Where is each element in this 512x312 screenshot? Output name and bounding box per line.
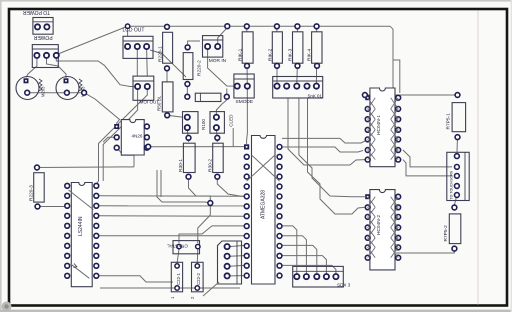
svg-text:POWER: POWER xyxy=(33,34,52,40)
svg-text:CLED: CLED xyxy=(229,114,234,127)
svg-text:CRYSTAL: CRYSTAL xyxy=(167,244,188,249)
wire HC04N-1 pin1 bus to R7P5-1 xyxy=(365,94,458,96)
photo edge top xyxy=(0,0,512,2)
faint board fold line xyxy=(477,11,479,305)
svg-text:RIK-2: RIK-2 xyxy=(267,48,273,61)
wire ATMEGA to KEYS pad5 xyxy=(282,265,336,273)
node emitter bus pad xyxy=(82,90,87,95)
svg-text:R220-1: R220-1 xyxy=(157,46,163,62)
svg-text:C22-1: C22-1 xyxy=(176,272,181,285)
wire ISP pad4 xyxy=(230,275,245,277)
svg-text:LCD OUT: LCD OUT xyxy=(123,28,145,34)
photo edge bottom xyxy=(0,310,512,312)
wire crystal left to ATMEGA xyxy=(179,226,244,243)
connector J2 POWER 3-pin xyxy=(32,45,59,68)
wire crystal to mid pad xyxy=(198,205,211,243)
resistor R7P5-1 xyxy=(452,93,466,140)
wire staircase s3 to HC04N-2 pin2 xyxy=(308,98,366,214)
wire R220-2 top stub xyxy=(188,41,200,44)
connector ISP 4-pin xyxy=(218,241,242,284)
svg-text:HC04N-1: HC04N-1 xyxy=(376,115,382,135)
wire RIK-3 bottom xyxy=(296,64,299,85)
transistor Q2 xyxy=(56,77,79,100)
wire diagonal across LS244 lower xyxy=(71,264,90,279)
wire braid HC04N-2 right xyxy=(391,197,399,208)
svg-text:LS244IN: LS244IN xyxy=(78,216,84,236)
svg-text:SMODE: SMODE xyxy=(236,99,254,105)
wire RIK-1 top stub xyxy=(246,26,248,32)
wire staircase s2 to HC04N-2 pin1 xyxy=(299,98,365,197)
wire power pad1 to Q1 xyxy=(26,57,37,78)
resistor network RN2 right box xyxy=(210,112,224,134)
wire 4N26 pin2 left xyxy=(103,137,117,142)
wire branch of top bus to HC04N-1 pin14 xyxy=(393,60,400,93)
connector touchscreen 5-pin xyxy=(447,152,469,200)
svg-text:SDX 3: SDX 3 xyxy=(337,283,351,288)
connector J1 TO POWER 2-pin xyxy=(33,18,53,35)
svg-text:R30-1: R30-1 xyxy=(178,159,184,172)
wire ATMEGA to KEYS pad4 xyxy=(282,256,326,274)
svg-text:R220-3: R220-3 xyxy=(29,185,35,201)
wire mid horizontal to ATMEGA pin1 xyxy=(148,146,244,148)
svg-text:R7P5-2: R7P5-2 xyxy=(443,225,449,242)
svg-text:R30-2: R30-2 xyxy=(207,159,213,172)
wire diagonal power connector to top bus xyxy=(58,27,127,54)
svg-text:RIK-1: RIK-1 xyxy=(238,48,244,61)
node bus pad near MOR IN xyxy=(225,24,230,29)
svg-text:RIK-3: RIK-3 xyxy=(288,48,294,61)
wire ISP corner diagonal xyxy=(203,282,219,296)
wire MOR IN pad2 to top bus xyxy=(218,26,228,44)
wire MOR OUT pad2 down-left diagonal xyxy=(96,88,147,184)
wire RIK-3 top stub xyxy=(296,26,298,32)
wire CLED down xyxy=(232,128,234,147)
wire diagonal across R220-1 xyxy=(150,50,186,77)
svg-text:R100: R100 xyxy=(201,119,206,130)
corner screw bottom-left xyxy=(2,302,12,312)
svg-text:M263: M263 xyxy=(41,86,46,97)
resistor RIK-4 xyxy=(312,24,322,68)
photo edge right xyxy=(511,0,512,312)
node bus left pad xyxy=(363,93,368,98)
wire HC04N-1 to touchscreen b xyxy=(403,160,452,176)
resistor R30-1 xyxy=(183,135,195,179)
svg-text:MOR IN: MOR IN xyxy=(209,58,227,64)
wire emitter bus Q1-Q2 xyxy=(27,92,84,94)
resistor R220-1 xyxy=(163,24,173,70)
wire LS244 row A xyxy=(99,195,244,197)
wire R100 right box top stub xyxy=(216,100,226,114)
wire diagonal D2 emitter bus to 4N26 xyxy=(84,93,119,125)
wire mid vertical pair b xyxy=(160,170,162,197)
resistor R220-2 xyxy=(183,45,193,87)
wire R30-2 bottom xyxy=(217,179,244,196)
connector LCD OUT xyxy=(123,36,153,58)
wire braid HC04N-1 right xyxy=(391,98,399,109)
wire LS244 row B xyxy=(99,205,244,207)
svg-text:4N26: 4N26 xyxy=(132,134,143,139)
wire LS244 row C xyxy=(99,215,244,217)
wire SMODE pad to ATMEGA pin1 xyxy=(246,88,249,144)
svg-text:R220-2: R220-2 xyxy=(197,60,203,76)
node bus pad at LCD OUT xyxy=(125,24,129,28)
resistor R7P5-2 xyxy=(449,205,461,251)
svg-text:HC04N-2: HC04N-2 xyxy=(376,215,382,235)
resistor RIK-1 xyxy=(242,24,253,68)
wire diagonal across ATMEGA a xyxy=(247,155,275,181)
coil mark Q1 xyxy=(39,79,42,91)
wire ATMEGA to KEYS pad3 xyxy=(282,245,317,273)
wire R220-3 top to mid column xyxy=(37,166,134,169)
crystal Y1 xyxy=(173,241,200,254)
wire R100 right box to R30-2 xyxy=(215,129,218,142)
wire RIK-1 bottom xyxy=(246,64,248,85)
ic U1 ATMEGA328 xyxy=(244,136,282,285)
wire fuse left stub xyxy=(226,89,228,96)
wire crystal pad2 to C22-2 xyxy=(196,249,199,263)
wire ISP pad2 xyxy=(230,255,245,258)
wire R30-1 bottom xyxy=(189,179,211,201)
wire ground bottom run xyxy=(100,287,240,289)
wire mid vertical pair a xyxy=(157,170,210,203)
resistor R50 xyxy=(162,82,173,118)
wire ATMEGA to KEYS pad1 xyxy=(282,226,297,274)
wire ATMEGA to HC04N-1 row a xyxy=(282,138,366,143)
diode D1 fuse body xyxy=(185,93,229,101)
wire MOR OUT pad1 down-left diagonal xyxy=(103,88,137,181)
wire R220-3 bottom to LS244 xyxy=(38,205,68,208)
wire MOR IN pad1 to SMODE xyxy=(208,48,238,86)
wire RIK-2 top stub xyxy=(276,26,278,32)
connector KEYS 5-pin xyxy=(293,266,344,287)
resistor network RN1 left box xyxy=(183,112,199,134)
wire 4N26 pin3 corner xyxy=(117,148,136,154)
connector SMODE xyxy=(234,74,254,98)
wire braid HC04N-1 left xyxy=(368,98,376,109)
wire touchscreen bottom to R7P5-2 xyxy=(454,195,457,205)
photo edge left xyxy=(0,0,2,312)
wire ISP pad3 xyxy=(230,264,245,267)
transistor Q1 xyxy=(16,77,39,100)
optocoupler 4N26 xyxy=(114,120,149,155)
wire diagonal across LS244 upper xyxy=(69,190,94,210)
wire staircase s1 to HC04N-1 xyxy=(288,98,365,165)
wire R220-2 bottom to fuse xyxy=(186,82,188,95)
wire top bus from LCD OUT to right side xyxy=(128,26,393,88)
wire R7P5-2 bottom run xyxy=(396,249,454,253)
wire HC04N-1 to touchscreen a xyxy=(403,150,452,167)
wire ATMEGA to HC04N-1 row b xyxy=(282,147,363,152)
svg-text:SnK 01: SnK 01 xyxy=(308,93,323,98)
svg-text:C22-2: C22-2 xyxy=(196,272,201,285)
wire R100 left box to R30-1 xyxy=(187,129,188,142)
wire RIK-4 bottom xyxy=(315,64,317,85)
wire y155 segment xyxy=(121,155,134,167)
wire LCD OUT pad3 down xyxy=(146,48,149,76)
svg-text:ATMEGA328: ATMEGA328 xyxy=(261,190,267,219)
wire R50 bottom to R100 box xyxy=(167,113,183,117)
wire ATMEGA to KEYS pad2 xyxy=(282,236,306,274)
svg-text:R7P5-1: R7P5-1 xyxy=(446,113,452,130)
svg-text:TO POWER: TO POWER xyxy=(23,9,51,15)
resistor R30-2 xyxy=(213,135,224,179)
svg-text:TO TOUCHSCRN: TO TOUCHSCRN xyxy=(449,170,453,199)
connector MOR OUT xyxy=(133,76,154,100)
wire RIK-4 top stub xyxy=(316,26,318,32)
wire LS244 bottom row to C22 xyxy=(99,276,173,282)
wire LS244 row D xyxy=(99,235,244,237)
wire crystal pad1 to C22-1 xyxy=(177,249,179,263)
svg-text:R50 BL: R50 BL xyxy=(157,95,162,111)
coil mark Q2 xyxy=(79,79,82,91)
wire R7P5-1 bottom to touchscreen xyxy=(456,137,459,152)
ic U2 HC04N-1 xyxy=(365,88,400,167)
wire arrow mark LS244 xyxy=(74,264,77,268)
resistor RIK-2 xyxy=(272,24,282,68)
wire RIK-2 bottom xyxy=(276,64,278,85)
node mid pad xyxy=(146,144,151,149)
wire ISP pad1 xyxy=(230,245,245,246)
resistor R220-3 xyxy=(34,165,45,209)
wire LCD OUT pad2 down xyxy=(136,48,138,76)
ic U3 HC04N-2 xyxy=(365,190,400,270)
node crystal net pad xyxy=(208,201,213,206)
svg-text:RIK-4: RIK-4 xyxy=(307,48,313,61)
resistor RIK-3 xyxy=(293,24,303,68)
wire diagonal D1 to MOR OUT xyxy=(56,57,135,87)
wire diagonal across ATMEGA b xyxy=(252,155,280,181)
connector SnK01 5-pin xyxy=(273,77,323,99)
wire R220-1 bottom to R50 xyxy=(166,70,168,83)
wire power pad2 to Q2 xyxy=(47,57,67,78)
ic LS244 IN xyxy=(65,183,99,287)
wire braid HC04N-2 left xyxy=(368,197,376,208)
capacitor C22-1 xyxy=(171,262,182,292)
connector MOR IN xyxy=(203,36,223,58)
capacitor C22-2 xyxy=(192,262,204,292)
